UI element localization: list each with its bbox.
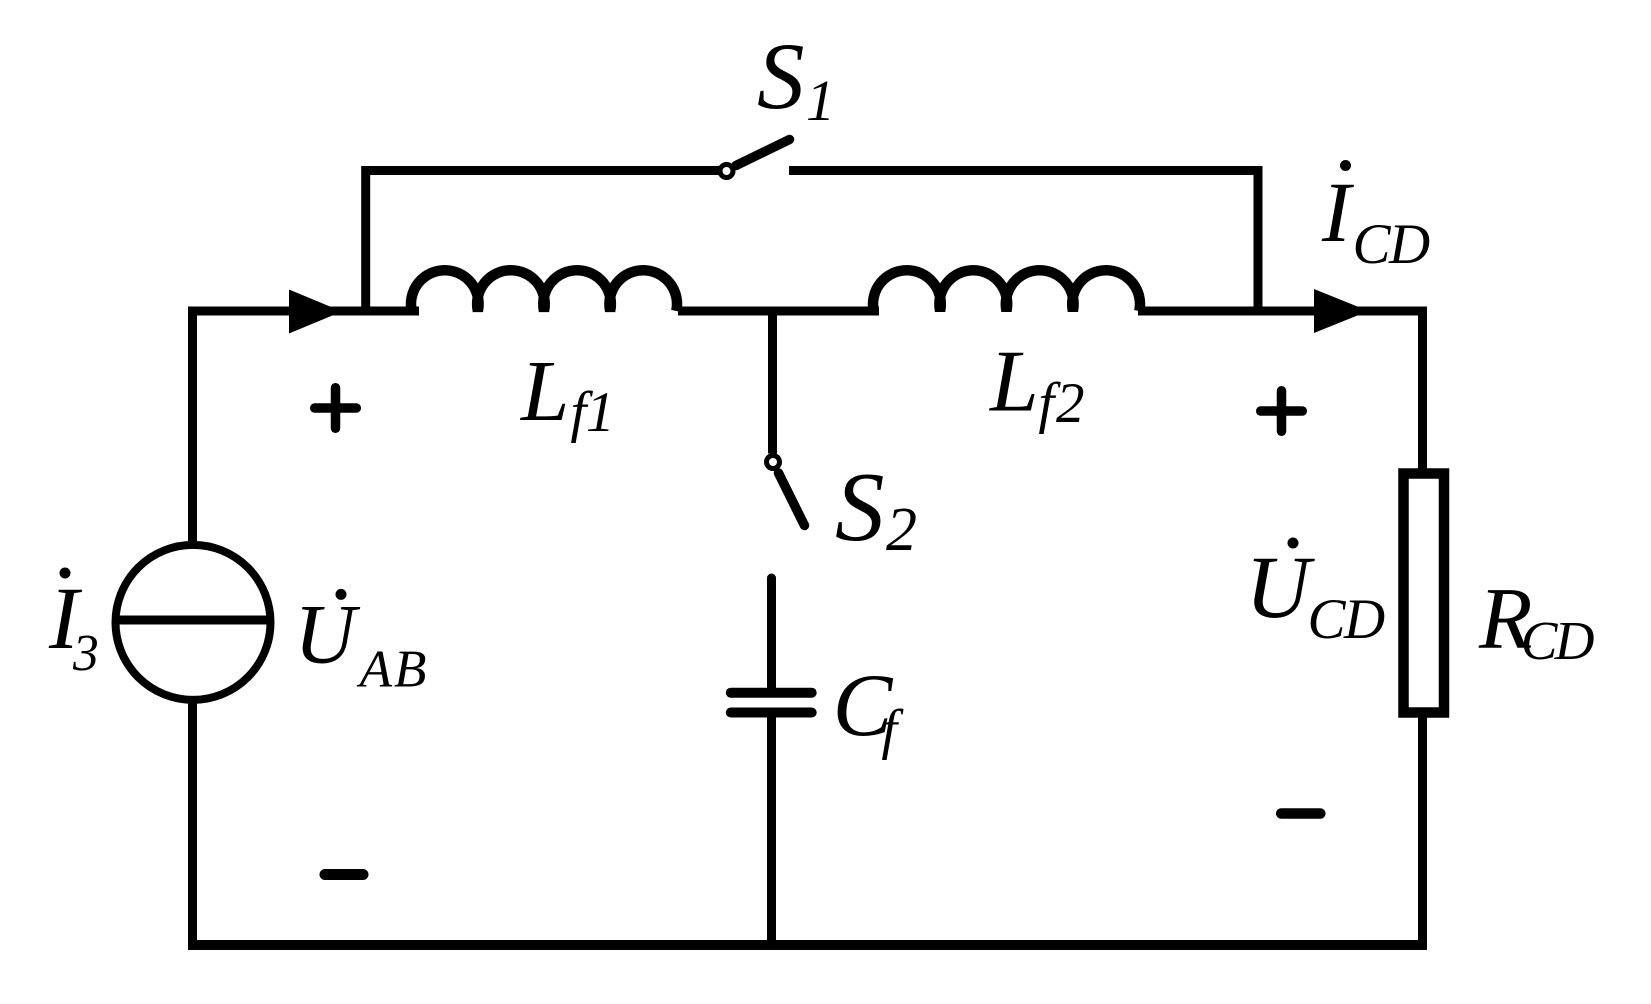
label Cf xyxy=(833,656,905,761)
svg-text:D: D xyxy=(1343,588,1385,651)
svg-text:L: L xyxy=(988,333,1039,430)
label RCD xyxy=(1478,570,1594,671)
wire left vertical (node A side) xyxy=(188,307,197,950)
switch S2 blade xyxy=(779,473,805,526)
capacitor Cf bottom plate xyxy=(731,708,812,718)
label S2 xyxy=(835,453,917,564)
current source I3 circle xyxy=(116,545,271,700)
svg-text:C: C xyxy=(1308,588,1347,651)
svg-text:B: B xyxy=(394,641,426,699)
svg-text:2: 2 xyxy=(886,496,917,564)
svg-text:C: C xyxy=(1353,213,1392,276)
wire capacitor top lead xyxy=(767,578,776,690)
arrow current direction ICD xyxy=(1314,289,1369,333)
switch S1 pivot xyxy=(720,165,733,178)
plus sign left xyxy=(315,388,357,429)
switch S1 blade xyxy=(736,140,790,166)
wire segment between inductors xyxy=(678,307,879,316)
current source I3 bar xyxy=(117,616,269,625)
label S1 xyxy=(757,23,835,133)
svg-text:2: 2 xyxy=(1056,372,1085,435)
svg-text:S: S xyxy=(835,453,885,562)
svg-text:U: U xyxy=(1245,538,1315,637)
label UCD with dot xyxy=(1245,538,1385,652)
wire top-left horizontal segment into node xyxy=(188,307,419,316)
label Lf1 xyxy=(519,342,615,444)
wire right vertical below resistor xyxy=(1418,712,1427,950)
wire bottom horizontal xyxy=(188,940,1427,950)
wire top right from switch S1 down to main line xyxy=(789,171,1258,312)
svg-text:S: S xyxy=(757,23,805,129)
svg-text:1: 1 xyxy=(806,68,835,133)
minus sign right xyxy=(1281,808,1320,819)
switch S2 pivot xyxy=(767,456,780,469)
label UAB with dot xyxy=(294,588,426,699)
label ICD with dot xyxy=(1321,160,1430,276)
minus sign left xyxy=(325,869,363,880)
label Lf2 xyxy=(988,333,1085,436)
arrow current direction left xyxy=(289,290,342,334)
svg-text:D: D xyxy=(1388,213,1430,276)
svg-text:C: C xyxy=(1521,610,1559,671)
svg-text:A: A xyxy=(357,641,393,699)
svg-text:3: 3 xyxy=(72,625,99,682)
inductor Lf1 xyxy=(411,270,677,311)
svg-text:f: f xyxy=(881,699,904,761)
capacitor Cf top plate xyxy=(731,688,812,698)
wire bypass stub and left top wire to switch S1 xyxy=(366,171,719,312)
inductor Lf2 xyxy=(873,270,1140,311)
svg-text:D: D xyxy=(1554,610,1595,671)
svg-text:1: 1 xyxy=(586,381,615,444)
wire segment right of Lf2 with corner down to resistor xyxy=(1138,311,1423,473)
svg-text:I: I xyxy=(1321,164,1354,260)
svg-text:U: U xyxy=(294,588,360,682)
svg-text:L: L xyxy=(519,342,569,439)
resistor RCD body xyxy=(1404,474,1445,713)
plus sign right xyxy=(1261,391,1303,432)
label I3 with dot xyxy=(48,568,99,683)
wire stem from node to switch S2 xyxy=(768,311,777,454)
wire capacitor bottom lead xyxy=(767,714,776,945)
